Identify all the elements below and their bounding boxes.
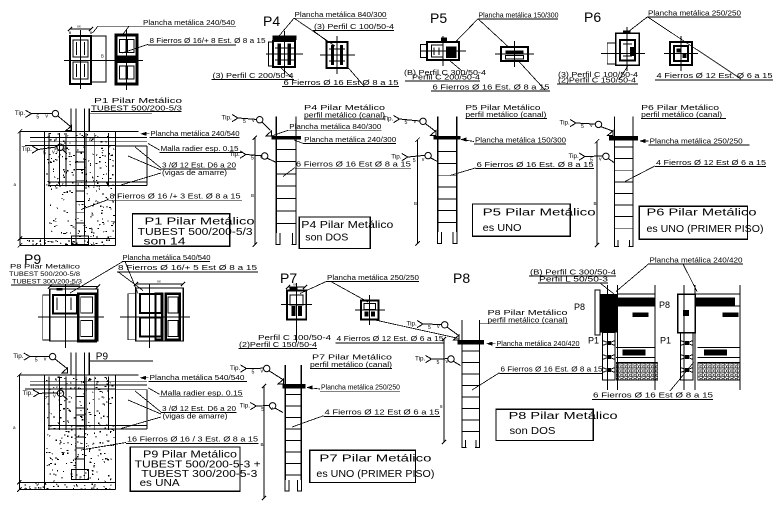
section P9 no2 — [136, 283, 183, 285]
svg-text:Plancha metálica 250/250: Plancha metálica 250/250 — [327, 273, 419, 282]
svg-text:Plancha metálica 840/300: Plancha metálica 840/300 — [295, 10, 387, 19]
detail 1 column black — [595, 290, 600, 335]
section P1 tube cross-section A — [70, 28, 91, 30]
svg-text:P4 Pilar Metálico: P4 Pilar Metálico — [301, 220, 394, 231]
svg-text:v: v — [437, 324, 440, 330]
leader 6 fierros P5 elev — [450, 168, 476, 176]
svg-text:son DOS: son DOS — [510, 426, 556, 437]
long leader to 4 fierros text — [648, 17, 742, 79]
svg-text:Plancha metálica 250/250: Plancha metálica 250/250 — [650, 137, 743, 146]
leader plancha2 — [294, 140, 303, 143]
svg-text:4 Fierros Ø 12 Est. Ø 6 a 15: 4 Fierros Ø 12 Est. Ø 6 a 15 — [337, 334, 444, 343]
svg-text:perfil metálico (canal): perfil metálico (canal) — [488, 315, 568, 324]
section P5 left — [441, 38, 447, 42]
centerlines P9 section 2 — [120, 316, 190, 318]
svg-text:Plancha metálica 240/420: Plancha metálica 240/420 — [650, 256, 743, 265]
leader to P9 section 1 — [70, 261, 123, 293]
section P1 side view rect — [91, 36, 106, 82]
box P8 designation — [496, 409, 593, 440]
svg-text:v: v — [261, 369, 264, 375]
svg-text:P8: P8 — [574, 302, 585, 312]
leader to P5 right section — [478, 19, 508, 47]
svg-text:B: B — [261, 442, 264, 447]
svg-text:v: v — [44, 357, 47, 363]
svg-text:P1: P1 — [588, 336, 599, 346]
leader to detail 2 — [683, 264, 697, 292]
svg-text:Plancha metálica 240/420: Plancha metálica 240/420 — [497, 339, 580, 348]
svg-text:B: B — [251, 193, 254, 198]
svg-text:B: B — [414, 201, 417, 206]
leader plancha P5 — [461, 140, 474, 142]
section P6 right — [670, 42, 692, 65]
leader to P6 left section — [626, 17, 648, 34]
svg-text:son 14: son 14 — [144, 236, 187, 247]
box P5 designation — [472, 204, 570, 236]
centerlines P6 right section — [664, 53, 698, 55]
svg-text:5: 5 — [437, 360, 440, 366]
svg-text:6 Fierros Ø 16 Est. Ø 8 a 15: 6 Fierros Ø 16 Est. Ø 8 a 15 — [433, 83, 550, 92]
svg-text:B: B — [101, 54, 104, 59]
leader from P6 left section — [619, 66, 628, 81]
svg-text:Tip.: Tip. — [391, 154, 402, 161]
concrete speckles P9 footing — [46, 377, 115, 483]
line from column — [89, 112, 152, 114]
svg-text:4 Fierros Ø 12 Est. Ø 6 a 15: 4 Fierros Ø 12 Est. Ø 6 a 15 — [657, 71, 773, 80]
centerlines P4 right section — [336, 36, 338, 74]
svg-text:son DOS: son DOS — [305, 232, 348, 243]
anchor flag P5 — [430, 131, 436, 136]
box P7 designation — [310, 450, 416, 482]
svg-text:8 Fierros Ø 16 /+ 3 Est. Ø 8: 8 Fierros Ø 16 /+ 3 Est. Ø 8 a 15 — [110, 192, 241, 201]
svg-text:(2)Perfil C 150/50-4: (2)Perfil C 150/50-4 — [239, 340, 317, 349]
leader malla — [148, 144, 160, 151]
svg-text:Tip.: Tip. — [230, 151, 241, 158]
leader to P5 left section — [456, 19, 478, 42]
ladder P6 — [614, 117, 616, 136]
centerlines P5 right section — [495, 53, 534, 55]
svg-text:Perfil C 200/50-4: Perfil C 200/50-4 — [412, 73, 480, 82]
section P4 right — [327, 42, 348, 68]
ladder P8 — [461, 320, 463, 340]
svg-text:Plancha metálica 150/300: Plancha metálica 150/300 — [475, 136, 566, 145]
centerlines P6 left section — [601, 53, 645, 55]
ladder rungs P9 — [76, 396, 84, 398]
svg-text:P8: P8 — [453, 270, 470, 286]
svg-text:6 Fierros Ø 16 Est Ø 8 a 15: 6 Fierros Ø 16 Est Ø 8 a 15 — [284, 78, 399, 87]
detail 1 centerlines — [607, 285, 609, 390]
svg-text:4 Fierros Ø 12 Est Ø 6 a 15: 4 Fierros Ø 12 Est Ø 6 a 15 — [656, 158, 766, 167]
svg-text:6 Fierros Ø 16 Est Ø 8 a 15: 6 Fierros Ø 16 Est Ø 8 a 15 — [296, 160, 411, 169]
box P1 designation — [132, 214, 229, 247]
svg-text:Tip.: Tip. — [15, 110, 26, 117]
section P6 left — [623, 30, 631, 33]
svg-text:es UNO: es UNO — [483, 223, 522, 234]
svg-text:Tip.: Tip. — [222, 115, 233, 122]
svg-text:Plancha metálica 150/300: Plancha metálica 150/300 — [479, 11, 559, 20]
detail 2 slab — [695, 293, 740, 295]
svg-text:(vigas de amarre): (vigas de amarre) — [162, 168, 227, 177]
anchor flag P7 — [278, 379, 284, 384]
svg-text:Plancha metálica 540/540: Plancha metálica 540/540 — [150, 373, 245, 382]
svg-text:5: 5 — [428, 325, 431, 331]
ladder rungs P1 — [76, 151, 84, 153]
box P6 designation — [639, 206, 747, 239]
svg-text:Tip.: Tip. — [560, 120, 571, 127]
footing P1 outline — [20, 130, 139, 132]
leader 6 fierros P8 elev — [472, 373, 500, 390]
anchor flag P9 — [62, 368, 68, 373]
leader 6 fierros details — [670, 363, 694, 392]
svg-text:Tip.: Tip. — [569, 153, 580, 160]
svg-text:v: v — [414, 119, 417, 125]
section P7 no2 — [361, 301, 379, 320]
svg-text:v: v — [422, 157, 425, 163]
svg-text:8 Fierros Ø 16/+ 8 Est. Ø 8: 8 Fierros Ø 16/+ 8 Est. Ø 8 a 15 — [150, 36, 266, 45]
svg-text:5: 5 — [243, 119, 246, 125]
tie-beam extension P9 — [116, 389, 147, 391]
ladder P5 — [437, 117, 439, 136]
svg-text:8 Fierros Ø 16/+ 5 Est Ø 8 a: 8 Fierros Ø 16/+ 5 Est Ø 8 a 15 — [118, 263, 257, 272]
detail 2 centerlines — [683, 285, 685, 390]
svg-text:Plancha metálica 240/540: Plancha metálica 240/540 — [143, 18, 235, 27]
section P7 no1 — [288, 286, 305, 288]
svg-text:xx: xx — [77, 25, 81, 29]
leader to section B — [122, 26, 129, 35]
svg-text:P8 Pilar Metálico: P8 Pilar Metálico — [509, 411, 619, 422]
anchor box P9 base — [72, 470, 89, 480]
anchor flag P1 — [66, 126, 72, 131]
long leader to P8 ladder — [375, 320, 459, 339]
svg-text:xx: xx — [157, 280, 161, 284]
detail 2 anchor rods — [681, 333, 694, 381]
svg-text:5: 5 — [590, 158, 593, 164]
column P9 — [70, 353, 72, 375]
svg-text:Tip.: Tip. — [407, 321, 418, 328]
svg-text:v: v — [52, 150, 55, 156]
svg-text:v: v — [252, 118, 255, 124]
centerlines P9 section 1 — [38, 316, 104, 318]
anchor box P1 base — [72, 236, 89, 245]
leader from P5 right section — [519, 62, 545, 91]
ladder P7 — [284, 365, 286, 384]
box P4 designation — [299, 217, 370, 249]
svg-text:(3) Perfil C 100/50-4: (3) Perfil C 100/50-4 — [314, 22, 394, 31]
detail 2 column — [678, 294, 696, 333]
svg-text:es UNO (PRIMER PISO): es UNO (PRIMER PISO) — [647, 224, 764, 235]
svg-text:5: 5 — [35, 358, 38, 364]
leader fan P9 — [135, 391, 161, 412]
svg-text:es UNA: es UNA — [140, 478, 180, 489]
leader 8 fierros to ladder — [81, 200, 109, 210]
svg-text:Plancha metálica 250/250: Plancha metálica 250/250 — [321, 383, 400, 392]
svg-text:v: v — [599, 157, 602, 163]
detail 1 slab — [618, 293, 656, 295]
leader 4 fierros P7 elev — [292, 416, 324, 427]
svg-text:Tip.: Tip. — [230, 365, 241, 372]
svg-text:perfil metálico (canal): perfil metálico (canal) — [465, 110, 546, 119]
anchor flag P4 — [266, 131, 272, 136]
dimension bracket P6 — [596, 141, 598, 245]
svg-text:6 Fierros Ø 16 Est. Ø 8 a 15: 6 Fierros Ø 16 Est. Ø 8 a 15 — [501, 365, 603, 374]
svg-text:Tip.: Tip. — [383, 116, 394, 123]
svg-text:5: 5 — [251, 156, 254, 162]
svg-text:(2)Perfil C 150/50-4: (2)Perfil C 150/50-4 — [558, 76, 636, 85]
leader from P5 left section — [449, 60, 462, 71]
centerlines P7 section 1 — [296, 283, 298, 343]
leader to P9 section 2 — [125, 261, 138, 293]
centerlines P4 left section — [284, 31, 286, 74]
svg-text:5: 5 — [36, 115, 39, 121]
anchor flag P6 — [608, 131, 614, 136]
svg-text:B: B — [594, 201, 597, 206]
svg-text:v: v — [53, 393, 56, 399]
svg-text:perfil metálico (canal): perfil metálico (canal) — [310, 360, 392, 369]
dimension bracket P8 — [443, 339, 445, 442]
leader 6 fierros from P4 right section — [348, 68, 364, 87]
svg-text:P7 Pilar Metálico: P7 Pilar Metálico — [319, 454, 432, 465]
leader 2 to P9 section 2 — [118, 272, 143, 291]
column P1 — [70, 109, 72, 132]
detail 1 bloque box — [633, 313, 649, 318]
leader to section A — [93, 26, 99, 33]
detail 2 gravel strip — [698, 362, 741, 364]
svg-text:perfil metálico (canal): perfil metálico (canal) — [304, 111, 385, 120]
leader plancha P6 — [640, 140, 649, 142]
svg-text:6 Fierros Ø 16 Est Ø 8 a 15: 6 Fierros Ø 16 Est Ø 8 a 15 — [593, 391, 713, 400]
box P9 designation — [130, 447, 240, 491]
ladder P4 — [275, 116, 277, 136]
detail 1 gravel strip — [616, 362, 658, 364]
leader fan to grid — [135, 147, 161, 168]
svg-text:(vigas de amarre): (vigas de amarre) — [163, 412, 228, 421]
svg-text:Tip.: Tip. — [23, 390, 34, 397]
detail 1 anchor rods — [603, 333, 616, 381]
svg-text:5: 5 — [405, 120, 408, 126]
leader plancha P7 elev — [307, 388, 320, 390]
svg-text:Tip.: Tip. — [240, 403, 251, 410]
leader plancha P8 elev — [487, 343, 496, 345]
section P4 left (with plate cap) — [273, 35, 297, 40]
leader to P4 left section — [279, 18, 294, 36]
leader to detail 1 — [616, 264, 649, 292]
leader from P4 left section bottom — [281, 68, 293, 78]
svg-text:v: v — [45, 114, 48, 120]
svg-text:6 Fierros Ø 16 Est. Ø 8 a 15: 6 Fierros Ø 16 Est. Ø 8 a 15 — [477, 160, 594, 169]
leader 6 fierros P4 — [283, 168, 295, 177]
svg-text:Tip.: Tip. — [13, 353, 24, 360]
svg-text:Plancha metálica 840/300: Plancha metálica 840/300 — [289, 122, 381, 131]
svg-text:v: v — [590, 123, 593, 129]
dimension bracket P5 — [417, 140, 419, 244]
svg-text:Plancha metálica 250/250: Plancha metálica 250/250 — [648, 9, 741, 18]
centerlines P1 sections — [64, 59, 143, 61]
rebar grid P1 footing — [30, 137, 147, 139]
centerlines P7 section 2 — [369, 295, 371, 325]
svg-text:(3) Perfil C 200/50-4: (3) Perfil C 200/50-4 — [213, 71, 294, 80]
detail 2 bloque box — [723, 313, 739, 318]
svg-text:xx: xx — [70, 282, 74, 286]
svg-text:Tip.: Tip. — [22, 146, 33, 153]
svg-text:4 Fierros Ø 12 Est Ø 6 a 15: 4 Fierros Ø 12 Est Ø 6 a 15 — [325, 408, 440, 417]
svg-text:Perfil L 50/50-3: Perfil L 50/50-3 — [539, 275, 608, 284]
detail 1 radier lines — [616, 347, 655, 349]
svg-text:16 Fierros Ø 16 / 3 Est. Ø 8: 16 Fierros Ø 16 / 3 Est. Ø 8 a 15 — [127, 435, 258, 444]
leader to P7 section 1 — [300, 282, 326, 294]
svg-text:Malla radier esp. 0.15: Malla radier esp. 0.15 — [161, 144, 239, 153]
svg-text:perfil metálico (canal): perfil metálico (canal) — [641, 110, 722, 119]
svg-text:Plancha metálica 240/540: Plancha metálica 240/540 — [151, 129, 240, 138]
leader malla P9 — [148, 388, 160, 395]
svg-text:Malla radier esp. 0.15: Malla radier esp. 0.15 — [161, 388, 243, 397]
svg-text:Plancha metálica 540/540: Plancha metálica 540/540 — [123, 253, 211, 262]
svg-text:P6: P6 — [584, 9, 601, 25]
section P5 right — [501, 47, 528, 61]
svg-text:Tip.: Tip. — [415, 356, 426, 363]
leader to P7 section 2 — [331, 282, 368, 302]
svg-text:5: 5 — [581, 124, 584, 130]
detail 2 radier lines — [698, 347, 741, 349]
leader 8 fierros to section B — [122, 44, 148, 53]
svg-text:5: 5 — [261, 407, 264, 413]
svg-text:P6 Pilar Metálico: P6 Pilar Metálico — [647, 208, 758, 219]
svg-text:P8: P8 — [659, 300, 670, 310]
rebar grid P9 footing — [30, 380, 147, 382]
svg-text:5: 5 — [252, 370, 255, 376]
anchor flag P8 — [454, 335, 460, 340]
dimension bracket P7 — [263, 386, 265, 498]
svg-text:TUBEST 500/200-5/3: TUBEST 500/200-5/3 — [91, 103, 182, 112]
svg-text:P4: P4 — [263, 13, 280, 29]
svg-text:P1: P1 — [660, 336, 671, 346]
svg-text:Plancha metálica 240/300: Plancha metálica 240/300 — [304, 135, 396, 144]
svg-text:P5: P5 — [430, 10, 447, 26]
svg-text:es UNO (PRIMER PISO): es UNO (PRIMER PISO) — [316, 469, 434, 480]
svg-text:P5 Pilar Metálico: P5 Pilar Metálico — [483, 208, 597, 219]
section P9 no1 — [50, 286, 98, 288]
svg-text:5: 5 — [413, 158, 416, 164]
footing P9 outline — [19, 374, 138, 376]
dimension bracket P4 — [254, 138, 256, 245]
svg-text:P8 Pilar Metálico: P8 Pilar Metálico — [10, 264, 80, 271]
leader plancha1 — [271, 130, 288, 136]
leader 16 fierros — [81, 443, 126, 451]
svg-text:TUBEST 500/200-5/8: TUBEST 500/200-5/8 — [9, 271, 80, 278]
tie-beam extension P1 — [116, 145, 147, 147]
leader perfil to column — [600, 283, 614, 294]
concrete speckles P1 footing — [46, 133, 115, 238]
centerlines P5 left section — [420, 50, 466, 52]
section P1 tube cross-section B (plated) — [116, 35, 137, 84]
leader 4 fierros P6 elev — [625, 166, 655, 182]
leader to P4 right section — [294, 18, 335, 46]
